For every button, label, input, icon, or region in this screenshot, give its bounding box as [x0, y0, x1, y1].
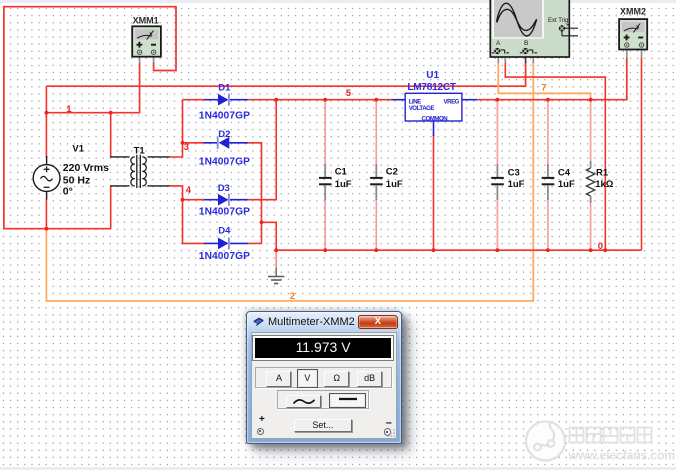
wire ground elbow D2/D4 junction to bottom rail [262, 222, 277, 250]
junction ground rail left [274, 248, 278, 252]
junction V1 top / node 1 [45, 111, 49, 115]
wire bottom-left rail (V1 to T1 primary return) [4, 228, 111, 230]
diode D3 [204, 194, 248, 206]
svg-text:1N4007GP: 1N4007GP [199, 156, 250, 167]
wire C1 riser [324, 100, 326, 165]
junction C1 top [323, 98, 327, 102]
wire D1 anode red stub [183, 99, 206, 101]
wire gray stub XMM1 - [153, 54, 155, 63]
svg-text:VREG: VREG [444, 98, 460, 105]
svg-text:1N4007GP: 1N4007GP [199, 207, 250, 218]
svg-text:D2: D2 [218, 129, 230, 140]
transformer T1 [110, 155, 170, 188]
wire XMM1 negative terminal loop (top rail + left edge) [4, 7, 176, 229]
junction D1 cathode node 5 [274, 98, 278, 102]
wire C4 lower drop [547, 199, 549, 250]
wire D3 cathode to node-5 riser [248, 100, 277, 200]
junction C4 bottom [546, 248, 550, 252]
wire D2 cathode drop to D4 junction [248, 143, 262, 223]
capacitor C2 [370, 164, 383, 200]
svg-text:3: 3 [184, 142, 189, 153]
diode D4 [204, 237, 248, 249]
wire y86 rail to scope B+ [46, 62, 525, 86]
ground [268, 250, 284, 283]
wire gray stub XMM2 + [626, 46, 628, 58]
wire bottom ground rail [276, 249, 641, 251]
junction D2/D4 cathode-anode [260, 220, 264, 224]
svg-text:50 Hz: 50 Hz [63, 174, 90, 186]
svg-text:R1: R1 [596, 167, 609, 178]
wire D4 cathode riser [248, 222, 262, 243]
wire node 4 (T1 secondary bottom to D3 / D4 anodes) [169, 186, 205, 244]
svg-text:1uF: 1uF [508, 179, 525, 190]
svg-text:U1: U1 [426, 70, 439, 81]
wire C2 lower drop [375, 199, 377, 250]
wire node 1 rail to XMM1 positive [46, 62, 139, 113]
svg-text:1N4007GP: 1N4007GP [199, 251, 250, 262]
junction node 4 at D3 [181, 198, 185, 202]
ac source V1 [33, 156, 60, 200]
wire D1 cathode to node 5 [248, 99, 277, 101]
wire node 5 rail [276, 99, 391, 101]
junction T1 primary top / node 1 [109, 111, 113, 115]
wire T1 primary top drop [110, 113, 112, 157]
wire XMM2 negative drop to ground rail [641, 57, 643, 250]
dialog Multimeter-XMM2 [246, 311, 402, 444]
svg-text:1kΩ: 1kΩ [595, 179, 614, 190]
wire C3 lower drop [496, 199, 498, 250]
wire node 3 (T1 secondary top to D1 anode / D2 cathode) [169, 100, 183, 157]
svg-text:VOLTAGE: VOLTAGE [409, 105, 435, 112]
junction C3 top [496, 98, 500, 102]
junction C3 bottom [496, 248, 500, 252]
junction node 3 at D2 [181, 141, 185, 145]
svg-text:D1: D1 [218, 82, 231, 93]
wire gray stub scope B+ [525, 57, 527, 64]
multimeter XMM2 icon [619, 19, 647, 49]
op-amp U1 regulator box LM7812CT [392, 93, 478, 136]
wire scope A+ (orange) to R1 node [498, 62, 590, 100]
capacitor C4 [542, 164, 555, 200]
wire V1 top to node 1 and y86 rail start [45, 86, 47, 157]
junction C2 top [374, 98, 378, 102]
svg-text:LM7812CT: LM7812CT [407, 82, 456, 93]
svg-text:XMM2: XMM2 [620, 7, 646, 17]
wire node 2 (orange) V1 return to scope B- [46, 62, 533, 301]
svg-text:0: 0 [598, 241, 603, 252]
oscilloscope XSC icon [490, 0, 578, 57]
junction C1 bottom [323, 248, 327, 252]
svg-text:C1: C1 [335, 166, 348, 177]
svg-text:C2: C2 [386, 166, 398, 177]
wire node 7 rail to XMM2 positive [477, 57, 627, 100]
svg-text:B: B [524, 40, 528, 47]
svg-text:D3: D3 [218, 183, 230, 194]
wire C2 riser [375, 100, 377, 165]
wire C3 riser [496, 100, 498, 165]
svg-text:V1: V1 [72, 143, 84, 154]
scope terminal B [522, 48, 528, 54]
diode D1 [204, 94, 248, 106]
svg-text:T1: T1 [134, 145, 146, 156]
multimeter XMM1 icon [132, 26, 161, 56]
wire scope A- to node 0 rail [505, 62, 605, 250]
svg-text:1uF: 1uF [558, 179, 575, 190]
junction C4 top [546, 98, 550, 102]
svg-text:7: 7 [541, 83, 546, 94]
capacitor C1 [319, 164, 332, 200]
svg-text:D4: D4 [218, 226, 231, 237]
junction U1 common bottom [432, 248, 436, 252]
diode D2 (reversed) [204, 137, 248, 149]
svg-text:XMM1: XMM1 [133, 16, 159, 26]
junction R1 bottom [589, 248, 593, 252]
wire gray stub scope A- [504, 57, 506, 64]
svg-text:1uF: 1uF [335, 179, 352, 190]
junction V1 bottom return [45, 227, 49, 231]
wire C4 riser [547, 100, 549, 165]
wire node 4 branch to D3 [183, 199, 206, 201]
wire gray stub scope A+ [497, 57, 499, 64]
wire C1 lower drop [324, 199, 326, 250]
capacitor C3 [491, 164, 504, 200]
svg-text:C4: C4 [558, 167, 571, 178]
svg-text:www.elecfans.com: www.elecfans.com [568, 449, 676, 463]
svg-text:COMMON: COMMON [422, 116, 448, 123]
svg-text:1: 1 [66, 104, 72, 115]
wire V1 bottom [45, 199, 47, 229]
svg-text:A: A [496, 40, 501, 47]
junction C2 bottom [374, 248, 378, 252]
wire U1 common drop [433, 135, 435, 250]
wire R1 lower drop [590, 201, 592, 251]
svg-text:Ext Trig: Ext Trig [548, 18, 568, 24]
resistor R1 [586, 161, 594, 203]
svg-text:1N4007GP: 1N4007GP [199, 110, 250, 121]
watermark [520, 410, 676, 470]
svg-text:5: 5 [346, 88, 352, 99]
wire gray stub XMM1 + [139, 54, 141, 63]
svg-text:C3: C3 [508, 167, 520, 178]
svg-text:4: 4 [186, 185, 192, 196]
wire gray stub XMM2 - [641, 46, 643, 58]
wire T1 primary bottom drop [110, 186, 112, 229]
svg-text:2: 2 [290, 291, 295, 302]
svg-text:0°: 0° [63, 186, 73, 198]
junction R1 top / scope A+ [589, 98, 593, 102]
wire R1 riser [590, 100, 592, 163]
wire gray stub scope B- [532, 57, 534, 64]
scope terminal Ext [559, 25, 565, 31]
scope terminal A [494, 48, 500, 54]
svg-text:1uF: 1uF [386, 179, 403, 190]
junction scope A- at rail [603, 248, 607, 252]
wire node 3 branch to D2 [183, 142, 206, 144]
svg-text:220 Vrms: 220 Vrms [63, 162, 109, 174]
